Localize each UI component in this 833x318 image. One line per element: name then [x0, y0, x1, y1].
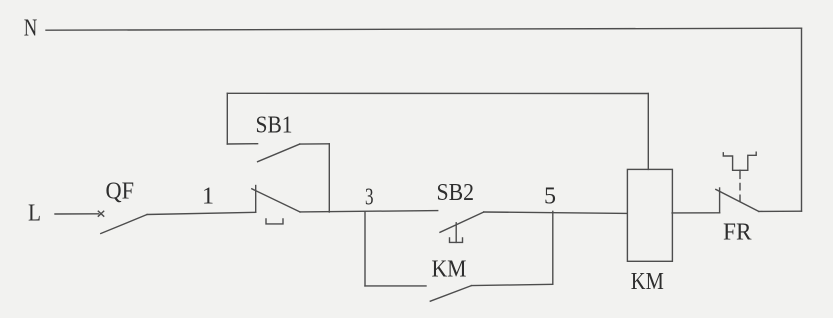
- svg-text:SB2: SB2: [437, 180, 475, 206]
- breaker QF blade: [101, 215, 147, 234]
- wire bottom branch left segment: [365, 285, 426, 287]
- svg-text:L: L: [28, 201, 41, 227]
- svg-text:3: 3: [365, 185, 374, 211]
- pushbutton SB1 actuator cup: [266, 219, 283, 224]
- wire FR to right-edge drop: [759, 210, 802, 212]
- pushbutton SB1 NC blade: [252, 189, 300, 212]
- wire SB1 branch fixed-contact stub: [227, 143, 257, 145]
- wire drop from top bus to KM coil top: [647, 94, 649, 170]
- pushbutton SB1 NC riser: [255, 186, 257, 213]
- wire KM coil to FR: [672, 212, 720, 214]
- contact KM auxiliary NO blade: [430, 286, 471, 302]
- svg-text:N: N: [24, 15, 38, 41]
- wire QF to SB1: [147, 212, 256, 214]
- svg-text:QF: QF: [106, 179, 135, 205]
- svg-text:5: 5: [544, 184, 556, 210]
- thermal element dashed link of FR: [739, 183, 741, 201]
- wire right-edge drop from N bus to FR output: [801, 28, 803, 211]
- svg-text:FR: FR: [723, 220, 752, 246]
- wire bottom branch right segment: [471, 284, 552, 285]
- wire SB1 branch left vertical from top bus: [226, 93, 228, 144]
- contact FR blade: [716, 189, 759, 211]
- wire node 5 vertical rise: [552, 211, 554, 284]
- wire SB1 branch top segment: [300, 143, 330, 145]
- wire SB1 branch right vertical to main line: [328, 144, 330, 212]
- wire N bus: [46, 28, 802, 30]
- thermal element link stem of FR: [739, 170, 741, 178]
- svg-text:KM: KM: [631, 269, 664, 295]
- breaker cross mark of QF: [98, 211, 103, 216]
- wire L lead: [55, 213, 99, 215]
- wire top bus to KM coil: [227, 92, 648, 94]
- svg-text:1: 1: [202, 184, 214, 210]
- pushbutton SB2 blade: [440, 212, 484, 232]
- svg-text:SB1: SB1: [256, 113, 293, 139]
- coil KM rectangle: [627, 169, 672, 261]
- pushbutton SB1 NO blade: [258, 144, 300, 162]
- pushbutton SB2 actuator cup: [450, 238, 463, 242]
- pushbutton SB2 actuator stem: [455, 223, 457, 243]
- contact FR riser: [719, 188, 721, 213]
- thermal element symbol of FR: [723, 152, 756, 170]
- wire SB2 to KM coil: [484, 212, 628, 213]
- wire SB1 to SB2: [300, 211, 438, 212]
- svg-text:KM: KM: [432, 257, 467, 283]
- wire node 3 vertical drop: [364, 212, 366, 286]
